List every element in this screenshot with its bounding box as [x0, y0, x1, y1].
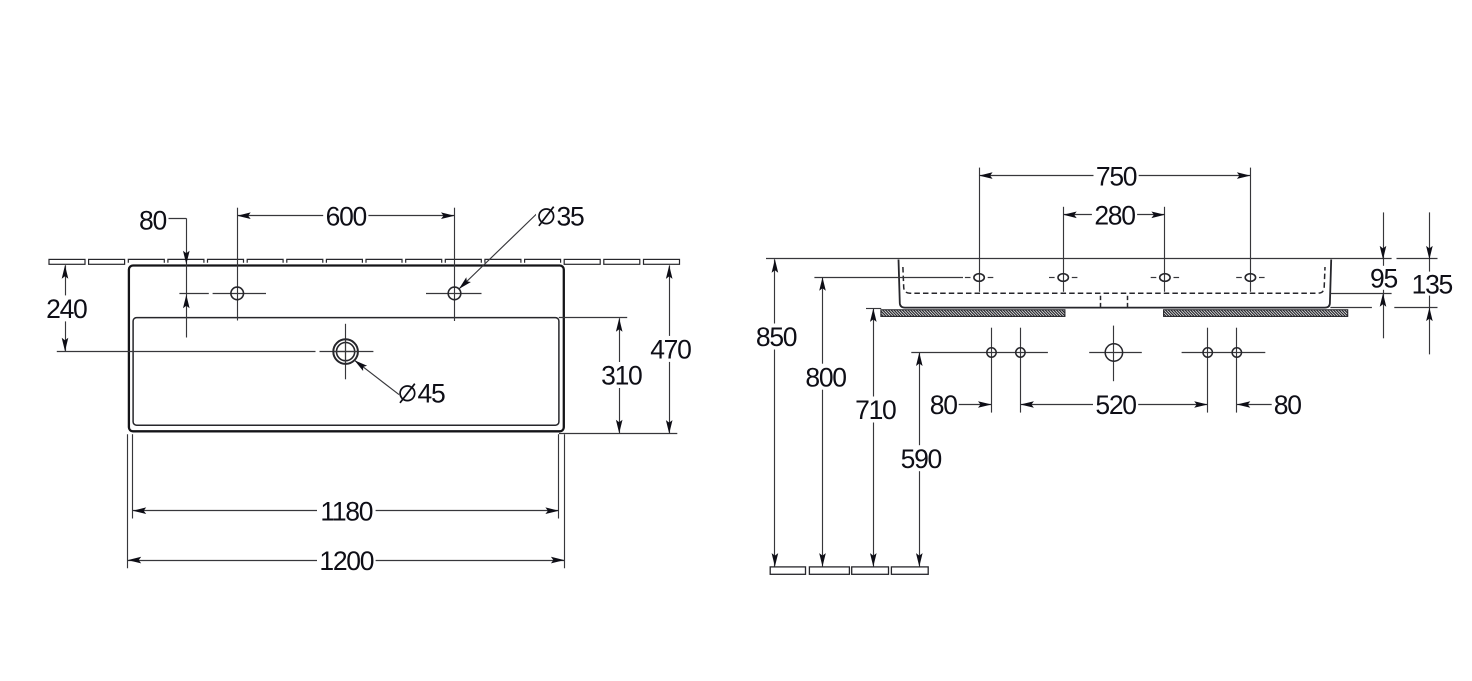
svg-text:590: 590: [901, 444, 942, 474]
dimension 240 line: [62, 265, 69, 351]
dimension 95 line: [1383, 212, 1385, 338]
svg-text:80: 80: [139, 206, 166, 236]
dimension 710 extension: [866, 308, 881, 310]
dimension 590 extension: [911, 352, 1048, 354]
dimension 280 label: [1092, 201, 1137, 231]
dimension 80 right line: [1237, 401, 1273, 408]
siphon outlet hole: [1105, 344, 1122, 361]
lower hole pair left centerlines: [992, 328, 1021, 413]
right tap hole centerlines: [426, 208, 482, 321]
underside extension line: [1330, 307, 1437, 309]
dimension 520 line: [1020, 401, 1207, 408]
top reference line: [766, 258, 1438, 260]
dimension 80 left label: [928, 390, 959, 420]
svg-text:710: 710: [855, 395, 896, 425]
inner basin bowl outline (1180 wide): [133, 318, 559, 426]
rim fixing hole 3: [1151, 207, 1179, 292]
Ø35 leader: [459, 214, 537, 290]
dimension 135 label: [1409, 269, 1454, 299]
dimension 1180 line: [133, 507, 559, 514]
dimension 710 label: [853, 395, 898, 425]
dimension 135 line: [1429, 212, 1431, 354]
Ø45 leader: [354, 360, 399, 394]
dimension 80 left line: [958, 401, 992, 408]
dimension 710 line: [870, 308, 877, 566]
dimension 590 label: [898, 444, 943, 474]
left tap hole centerlines: [179, 208, 266, 321]
dimension 80 leader/extension: [169, 218, 187, 337]
wall line (tiled wall, top view): [49, 259, 680, 264]
dimension 850 label: [754, 322, 799, 352]
dimension 95 arrows: [1380, 246, 1387, 307]
svg-text:520: 520: [1095, 390, 1136, 420]
right tap hole (Ø35): [448, 287, 461, 300]
dimension 135 arrows: [1426, 246, 1433, 321]
svg-text:80: 80: [1274, 390, 1301, 420]
dimension 800 line: [819, 277, 826, 566]
rim fixing hole 4: [1236, 168, 1264, 292]
dimension 1200 extensions: [128, 434, 565, 568]
svg-text:800: 800: [805, 362, 846, 392]
hidden drain outlet (dashed): [1101, 296, 1128, 308]
dimension 470 extension: [559, 433, 677, 435]
dimension 520 label: [1093, 390, 1138, 420]
siphon outlet centerlines: [1089, 326, 1142, 382]
svg-text:1180: 1180: [320, 496, 372, 526]
svg-text:600: 600: [326, 201, 367, 231]
Ø45 label: [400, 379, 445, 409]
hidden bowl bottom (dashed): [903, 267, 1325, 293]
lower hole pair right: [1203, 348, 1242, 357]
dimension 590 line: [916, 353, 923, 567]
rim fixing hole 2: [1049, 207, 1077, 292]
svg-text:95: 95: [1370, 264, 1397, 294]
rim fixing hole 1: [965, 168, 993, 292]
washbasin outer outline (top view, 1200 wide): [129, 266, 564, 432]
dimension 80 right label: [1272, 390, 1303, 420]
dimension 240 label: [44, 294, 89, 324]
mounting bracket left (hatched): [881, 310, 1065, 317]
dimension 800 extension: [814, 277, 963, 279]
left tap hole (Ø35): [231, 287, 244, 300]
dimension 310 extension: [559, 317, 627, 319]
dimension 750 line: [979, 172, 1250, 179]
dimension 600 line: [237, 212, 454, 219]
lower hole pair left: [987, 348, 1025, 357]
mounting bracket right (hatched): [1164, 310, 1348, 317]
drain hole (Ø45): [333, 339, 358, 364]
dimension 1200 label: [317, 546, 376, 576]
svg-text:35: 35: [557, 201, 584, 231]
dimension 95 bottom extension: [1331, 293, 1392, 295]
dimension 600 label: [323, 201, 368, 231]
dimension 310 line: [616, 318, 623, 433]
svg-text:470: 470: [650, 335, 691, 365]
svg-text:750: 750: [1096, 161, 1137, 191]
svg-text:135: 135: [1412, 269, 1453, 299]
dimension 310 label: [599, 361, 644, 391]
dimension 470 line: [666, 265, 673, 433]
svg-text:310: 310: [601, 361, 642, 391]
svg-text:280: 280: [1094, 201, 1135, 231]
dimension 1200 line: [128, 557, 565, 564]
svg-text:850: 850: [756, 322, 797, 352]
drain centerlines: [57, 324, 374, 380]
Ø35 label: [536, 201, 586, 231]
svg-text:1200: 1200: [319, 546, 373, 576]
svg-text:45: 45: [418, 379, 445, 409]
dimension 800 label: [803, 362, 848, 392]
dimension 280 line: [1063, 212, 1165, 219]
dimension 850 line: [772, 259, 779, 566]
svg-text:240: 240: [46, 294, 87, 324]
dimension 80 label: [137, 206, 168, 236]
dimension 750 label: [1094, 161, 1139, 191]
svg-text:80: 80: [930, 390, 957, 420]
floor line (tiles): [770, 567, 928, 574]
dimension 470 label: [648, 335, 693, 365]
lower hole pair right centerlines: [1182, 328, 1266, 413]
dimension 1180 label: [317, 496, 376, 526]
dimension 1180 extensions: [133, 434, 559, 518]
dimension 80 arrows: [183, 251, 190, 308]
dimension 95 label: [1368, 264, 1399, 294]
washbasin body outline (front view): [899, 260, 1332, 308]
